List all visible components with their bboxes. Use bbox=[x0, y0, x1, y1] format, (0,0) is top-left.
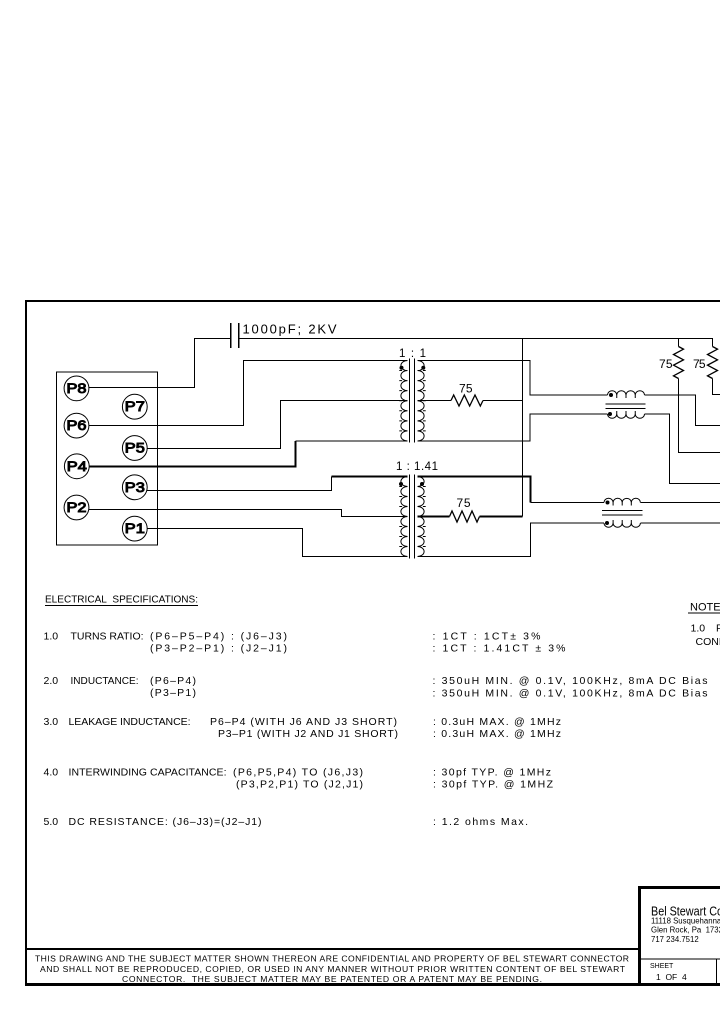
wire P6 to T1 primary top bbox=[89, 361, 408, 426]
transformer T2 secondary winding bbox=[418, 477, 426, 557]
wire P3 to T2 primary top bbox=[147, 477, 332, 491]
resistor R1 leads and output wire bbox=[679, 339, 720, 453]
svg-text:75: 75 bbox=[459, 382, 473, 396]
pin P4 bbox=[64, 454, 89, 479]
svg-text:(P3,P2,P1) TO (J2,J1): (P3,P2,P1) TO (J2,J1) bbox=[236, 779, 363, 791]
svg-text:DC RESISTANCE: (J6–J3)=(J2–J1): DC RESISTANCE: (J6–J3)=(J2–J1) bbox=[69, 816, 262, 828]
resistor R4 75 ohm zigzag (T2) bbox=[450, 511, 480, 522]
wire T2 center tap to resistor R4 (bold) bbox=[418, 516, 450, 518]
svg-text:INDUCTANCE:: INDUCTANCE: bbox=[71, 675, 139, 687]
capacitor C1 plates (1000pF 2KV) bbox=[231, 323, 239, 348]
choke L2 upper winding bbox=[604, 498, 640, 505]
wire T2 secondary top to choke L2 upper (bold) bbox=[418, 477, 531, 503]
wire T1 secondary top to choke L1 upper bbox=[418, 361, 608, 396]
svg-text:ELECTRICAL SPECIFICATIONS:: ELECTRICAL SPECIFICATIONS: bbox=[45, 595, 198, 606]
polarity dot T2 secondary bbox=[420, 482, 424, 486]
svg-text:SHEET: SHEET bbox=[650, 963, 674, 970]
svg-text:P1: P1 bbox=[125, 520, 145, 536]
polarity dot L1 upper bbox=[609, 393, 613, 397]
svg-text:: 30pf TYP. @ 1MHz: : 30pf TYP. @ 1MHz bbox=[433, 767, 551, 779]
svg-text:(P6–P4): (P6–P4) bbox=[150, 675, 196, 687]
svg-text:CONN: CONN bbox=[696, 636, 720, 648]
pin P5 bbox=[122, 436, 147, 461]
svg-text:P7: P7 bbox=[125, 398, 145, 414]
svg-text:CONNECTOR. THE SUBJECT MATTER: CONNECTOR. THE SUBJECT MATTER MAY BE PAT… bbox=[122, 974, 542, 984]
svg-text:1.0: 1.0 bbox=[44, 631, 59, 643]
svg-text:: 1.2 ohms Max.: : 1.2 ohms Max. bbox=[433, 816, 528, 828]
svg-text:75: 75 bbox=[693, 357, 706, 371]
svg-text:: 0.3uH MAX. @ 1MHz: : 0.3uH MAX. @ 1MHz bbox=[433, 728, 561, 740]
wire T2 secondary bottom to choke L2 lower bbox=[418, 523, 605, 557]
svg-text:P6: P6 bbox=[67, 417, 87, 433]
polarity dot L2 upper bbox=[606, 501, 610, 505]
svg-text:1 OF 4: 1 OF 4 bbox=[656, 972, 687, 982]
svg-text:: 0.3uH MAX. @ 1MHz: : 0.3uH MAX. @ 1MHz bbox=[433, 716, 561, 728]
wire P4 to T1 primary bottom (bold) bbox=[89, 441, 296, 467]
wire choke L2 lower output bbox=[641, 522, 720, 524]
svg-text:(P3–P1): (P3–P1) bbox=[150, 687, 196, 699]
resistor R1 75 ohm zigzag bbox=[674, 347, 684, 379]
wire P8 to capacitor C1 bbox=[89, 339, 231, 388]
resistor R3 75 ohm zigzag (T1) bbox=[451, 395, 483, 406]
transformer T2 core bbox=[410, 475, 415, 559]
svg-text:P4: P4 bbox=[67, 458, 87, 474]
polarity dot T1 primary bbox=[400, 366, 404, 370]
svg-text:: 350uH MIN. @ 0.1V, 100KHz, 8: : 350uH MIN. @ 0.1V, 100KHz, 8mA DC Bias bbox=[433, 688, 708, 700]
svg-text:4.0: 4.0 bbox=[44, 767, 59, 779]
wire C1 to node CT bus bbox=[239, 338, 713, 340]
svg-text:P8: P8 bbox=[67, 380, 87, 396]
wire P1 to T2 primary bottom bbox=[147, 529, 408, 557]
svg-text:P5: P5 bbox=[125, 440, 145, 456]
svg-text:TURNS RATIO:: TURNS RATIO: bbox=[71, 631, 144, 643]
svg-text:: 30pf TYP. @ 1MHZ: : 30pf TYP. @ 1MHZ bbox=[433, 779, 554, 791]
wire choke L1 lower output bbox=[645, 414, 720, 484]
svg-text:1 : 1.41: 1 : 1.41 bbox=[396, 461, 438, 473]
node CT vertical bus bbox=[522, 339, 524, 517]
svg-text:AND SHALL NOT BE REPRODUCED, C: AND SHALL NOT BE REPRODUCED, COPIED, OR … bbox=[40, 964, 626, 974]
svg-text:P3: P3 bbox=[125, 479, 145, 495]
choke L1 lower winding bbox=[608, 411, 645, 418]
polarity dot T2 primary bbox=[399, 482, 403, 486]
transformer T2 primary winding bbox=[399, 477, 407, 557]
svg-text:P2: P2 bbox=[67, 499, 87, 515]
polarity dot L2 lower bbox=[605, 521, 609, 525]
svg-text:5.0: 5.0 bbox=[44, 816, 59, 828]
choke L1 core bbox=[606, 404, 646, 409]
svg-text:: 350uH MIN. @ 0.1V, 100KHz, 8: : 350uH MIN. @ 0.1V, 100KHz, 8mA DC Bias bbox=[433, 675, 708, 687]
svg-text:717 234.7512: 717 234.7512 bbox=[651, 935, 699, 944]
svg-text:INTERWINDING CAPACITANCE:: INTERWINDING CAPACITANCE: bbox=[69, 767, 227, 779]
svg-text:LEAKAGE INDUCTANCE:: LEAKAGE INDUCTANCE: bbox=[69, 716, 191, 728]
svg-text:(P6,P5,P4) TO (J6,J3): (P6,P5,P4) TO (J6,J3) bbox=[233, 767, 363, 779]
wire P2 to T2 primary center tap bbox=[89, 510, 408, 517]
pin P1 bbox=[122, 516, 147, 541]
transformer T1 core bbox=[410, 359, 415, 443]
pin P3 bbox=[122, 475, 147, 500]
wire P5 to T1 primary center tap bbox=[147, 401, 408, 449]
svg-text:P6–P4 (WITH J6 AND J3 SHORT): P6–P4 (WITH J6 AND J3 SHORT) bbox=[210, 716, 397, 728]
wire T1 center tap to resistor R3 bbox=[418, 400, 452, 402]
svg-text:75: 75 bbox=[659, 357, 673, 371]
svg-text:11118 Susquehanna Trail: 11118 Susquehanna Trail bbox=[651, 917, 720, 926]
pin P6 bbox=[64, 413, 89, 438]
wire T1 secondary bottom to choke L1 lower bbox=[418, 414, 608, 441]
wire R4 to node CT (bold) bbox=[480, 516, 523, 518]
svg-text:3.0: 3.0 bbox=[44, 716, 59, 728]
pin P2 bbox=[64, 495, 89, 520]
svg-text:NOTES:: NOTES: bbox=[690, 602, 720, 614]
connector J1 (RJ45 plug pins box) bbox=[57, 372, 158, 545]
wire R3 to node CT bbox=[483, 400, 523, 402]
svg-text:: 1CT : 1.41CT ± 3%: : 1CT : 1.41CT ± 3% bbox=[433, 643, 566, 655]
svg-text:FOR: FOR bbox=[716, 623, 720, 635]
svg-text:1.0: 1.0 bbox=[691, 623, 706, 635]
polarity dot T1 secondary bbox=[421, 366, 425, 370]
transformer T1 primary winding bbox=[399, 361, 407, 441]
transformer T1 secondary winding bbox=[418, 361, 426, 441]
svg-text:1 : 1: 1 : 1 bbox=[399, 348, 426, 360]
svg-text:P3–P1 (WITH J2 AND J1 SHORT): P3–P1 (WITH J2 AND J1 SHORT) bbox=[218, 728, 398, 740]
pin P7 bbox=[122, 394, 147, 419]
pin P8 bbox=[64, 376, 89, 401]
svg-text:Glen Rock, Pa 17327: Glen Rock, Pa 17327 bbox=[651, 926, 720, 935]
choke L2 lower winding bbox=[604, 520, 640, 527]
wire choke L2 upper output bbox=[641, 502, 720, 504]
svg-text:THIS DRAWING AND THE SUBJECT M: THIS DRAWING AND THE SUBJECT MATTER SHOW… bbox=[35, 954, 629, 964]
svg-text:1000pF; 2KV: 1000pF; 2KV bbox=[243, 322, 337, 337]
resistor R2 75 ohm zigzag bbox=[708, 347, 718, 379]
resistor R2 leads and output wire bbox=[713, 339, 720, 395]
svg-text:75: 75 bbox=[457, 496, 471, 510]
svg-text:2.0: 2.0 bbox=[44, 675, 59, 687]
choke L2 core bbox=[602, 511, 643, 516]
wire choke L1 upper output bbox=[645, 395, 720, 426]
choke L1 upper winding bbox=[608, 391, 645, 398]
polarity dot L1 lower bbox=[608, 412, 612, 416]
